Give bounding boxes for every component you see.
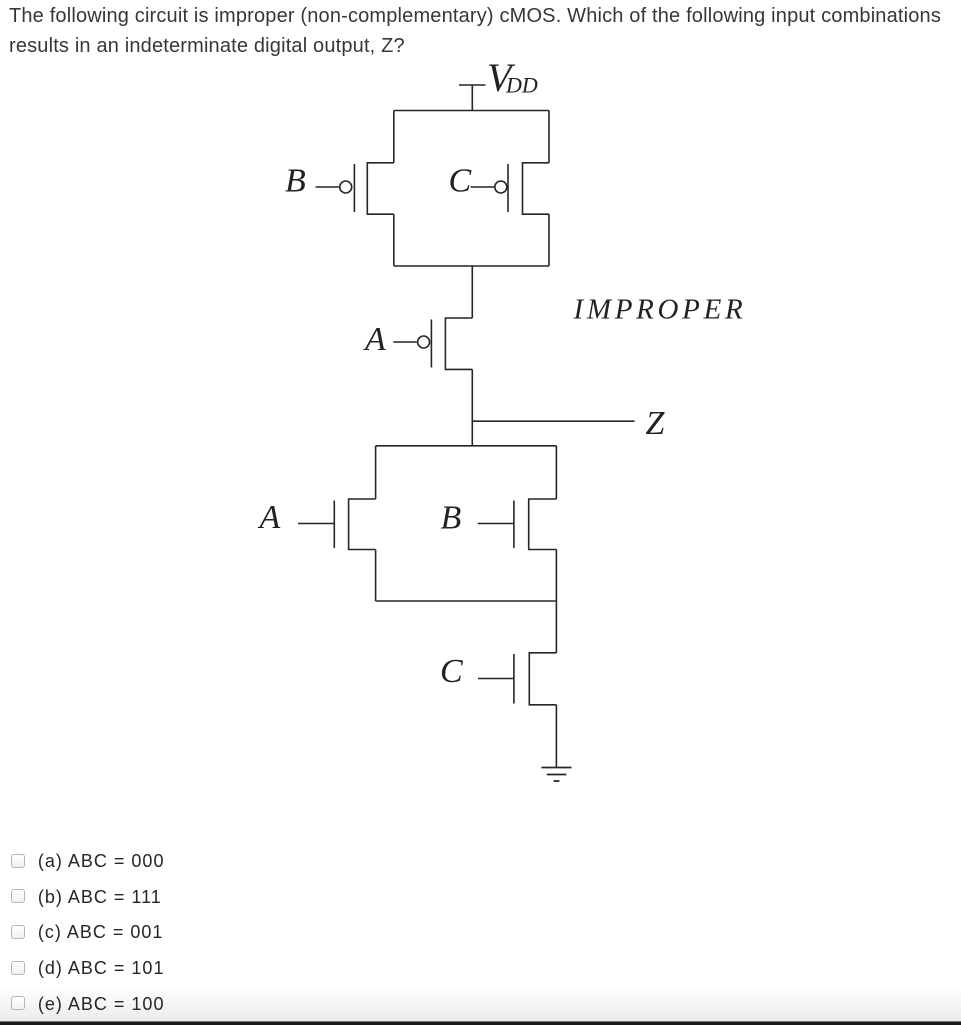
wire: right edge upper (rail to M2 drain)	[548, 111, 550, 163]
wire: left edge upper (rail to M1 drain)	[393, 111, 395, 163]
wire: gate lead C	[471, 186, 494, 188]
transistor M5 (NMOS, gate B)	[514, 499, 557, 550]
wire: down to M6 drain	[555, 601, 557, 653]
wire: gate lead A	[393, 341, 417, 343]
wire: bottom rail of PMOS parallel pair	[394, 265, 549, 267]
power VDD symbol	[459, 85, 486, 111]
wire: right edge lower (M2 source to bottom rail)	[548, 214, 550, 266]
svg-text:Z: Z	[646, 405, 666, 442]
wire: left edge lower (M4 source to bottom rail)	[375, 550, 377, 602]
transistor M4 (NMOS, gate A)	[334, 499, 375, 550]
wire: M6 source to ground	[555, 705, 557, 767]
wire: gate lead A	[298, 523, 334, 525]
svg-text:A: A	[258, 499, 281, 536]
transistor M6 (NMOS, gate C)	[514, 653, 557, 705]
svg-text:B: B	[441, 499, 462, 536]
svg-text:C: C	[449, 163, 472, 200]
transistor M3 (PMOS, gate A)	[431, 318, 472, 369]
svg-text:C: C	[440, 653, 463, 690]
wire: left edge upper (rail to M4 drain)	[375, 446, 377, 499]
wire: top rail of PMOS parallel pair	[394, 110, 549, 112]
ground symbol	[542, 768, 572, 782]
wire: M3 source down to NMOS pair	[471, 369, 473, 445]
wire: bottom rail of NMOS parallel pair	[376, 600, 557, 602]
wire: top rail of NMOS parallel pair	[376, 445, 557, 447]
svg-text:DD: DD	[505, 73, 538, 98]
bubble M1 gate	[340, 181, 352, 193]
svg-text:A: A	[363, 321, 386, 358]
transistor M1 (PMOS, gate B)	[354, 163, 393, 214]
bubble M3 gate	[418, 336, 430, 348]
wire: right edge lower (M5 source to bottom rail)	[555, 550, 557, 602]
wire: output node Z	[472, 420, 634, 422]
wire: left edge lower (M1 source to bottom rail)	[393, 214, 395, 266]
svg-text:B: B	[285, 163, 306, 200]
wire: gate lead B	[316, 186, 339, 188]
transistor M2 (PMOS, gate C)	[508, 163, 549, 214]
net label VDD	[487, 55, 538, 100]
wire: gate lead C	[478, 678, 514, 680]
wire: right edge upper (rail to M5 drain)	[555, 446, 557, 499]
wire: gate lead B	[478, 523, 514, 525]
bubble M2 gate	[495, 181, 507, 193]
svg-text:IMPROPER: IMPROPER	[573, 293, 747, 325]
wire: stem to M3 drain	[471, 266, 473, 318]
